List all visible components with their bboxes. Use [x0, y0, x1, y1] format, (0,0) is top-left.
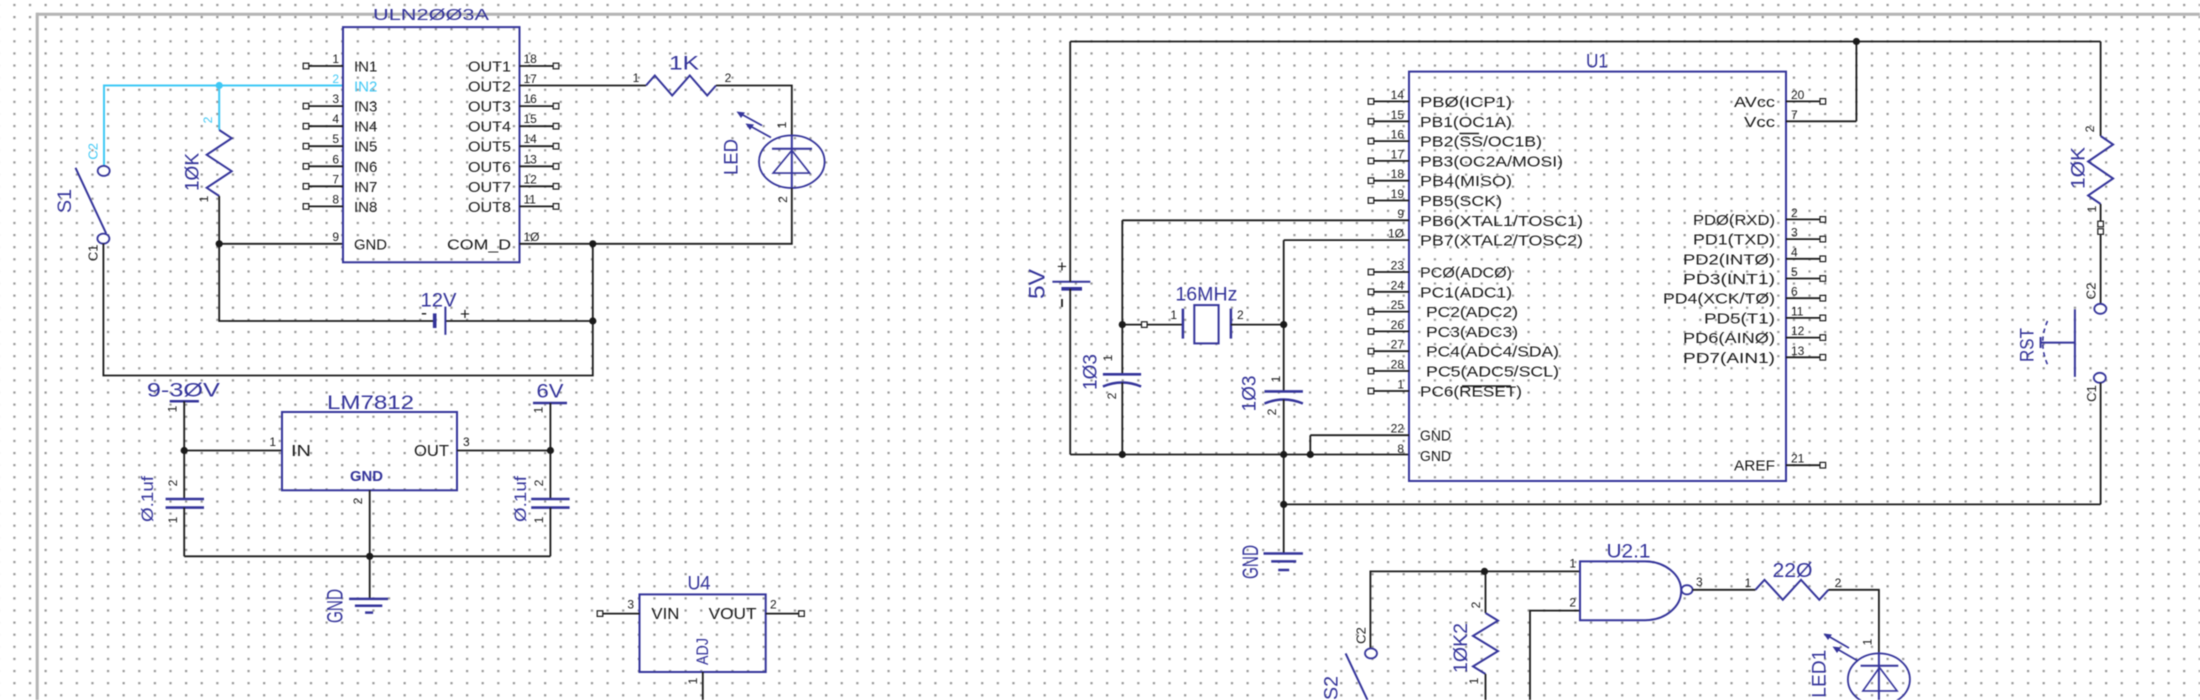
- ULN pin 9 GND: [332, 230, 387, 254]
- capacitor 103 (right): [1240, 325, 1303, 455]
- junction node 10K/GND9: [216, 240, 223, 247]
- switch RST pushbutton: [2018, 235, 2107, 505]
- svg-text:25: 25: [1391, 298, 1405, 312]
- svg-text:PDØ(RXD): PDØ(RXD): [1693, 212, 1775, 229]
- LED1 light arrows: [1838, 650, 1858, 662]
- svg-text:PC2(ADC2): PC2(ADC2): [1426, 304, 1518, 321]
- svg-text:1: 1: [1101, 354, 1115, 361]
- wire ground stem: [1283, 455, 1285, 505]
- svg-text:2: 2: [725, 71, 732, 85]
- U1 pin 2 PD0(RXD): [1693, 206, 1826, 229]
- ULN pin 7 IN7: [303, 172, 377, 196]
- svg-text:+: +: [460, 305, 470, 324]
- svg-text:GND: GND: [323, 589, 348, 623]
- svg-text:C2: C2: [85, 143, 100, 160]
- svg-text:PB7(XTAL2/TOSC2): PB7(XTAL2/TOSC2): [1420, 233, 1583, 250]
- resistor 1K: [633, 54, 732, 96]
- svg-text:2: 2: [1835, 576, 1842, 590]
- svg-text:1: 1: [1745, 576, 1752, 590]
- svg-text:8: 8: [1397, 442, 1404, 456]
- svg-text:C1: C1: [85, 244, 100, 261]
- svg-text:1Ø: 1Ø: [524, 230, 540, 244]
- svg-text:OUT8: OUT8: [468, 199, 511, 216]
- U1 pin 26 PC3(ADC3): [1368, 318, 1518, 341]
- ULN pin 3 IN3: [303, 92, 377, 116]
- junction node Vcc rail: [1853, 38, 1860, 45]
- ULN pin 5 IN5: [303, 132, 377, 156]
- svg-text:3: 3: [463, 435, 470, 449]
- svg-text:2: 2: [1265, 408, 1279, 415]
- switch S1: [55, 143, 110, 261]
- svg-text:15: 15: [524, 112, 538, 126]
- ULN pin 2 IN2: [332, 72, 377, 96]
- ULN pin 11 OUT8: [468, 192, 559, 216]
- capacitor 0.1uf (input): [138, 451, 204, 557]
- svg-text:1ØK: 1ØK: [2069, 147, 2090, 189]
- U1 pin 5 PD3(INT1): [1683, 265, 1826, 288]
- svg-text:1: 1: [332, 52, 339, 66]
- svg-text:1: 1: [686, 677, 700, 684]
- svg-text:1: 1: [1170, 308, 1177, 322]
- svg-text:LED1: LED1: [1809, 650, 1830, 698]
- svg-text:2: 2: [1237, 308, 1244, 322]
- supply 6V: [532, 382, 567, 414]
- svg-text:C1: C1: [2084, 385, 2099, 402]
- wire LED cathode down/left to COM_D: [520, 188, 792, 244]
- svg-text:1ØK: 1ØK: [183, 153, 204, 191]
- svg-text:1ØK2: 1ØK2: [1451, 623, 1472, 673]
- svg-text:23: 23: [1391, 259, 1405, 273]
- U4 pin 2 VOUT: [766, 613, 799, 615]
- IC U1 microcontroller: [1368, 52, 1825, 481]
- svg-text:AVcc: AVcc: [1734, 94, 1776, 111]
- U1 pin 1 PC6(RESET): [1368, 378, 1522, 401]
- resistor 10K (right): [2069, 42, 2113, 235]
- svg-text:PD3(INT1): PD3(INT1): [1683, 271, 1775, 288]
- U1 pin 25 PC2(ADC2): [1368, 298, 1518, 321]
- junction node VOUT: [547, 447, 554, 454]
- svg-text:3: 3: [1791, 226, 1798, 240]
- junction node VIN: [181, 447, 188, 454]
- svg-text:2: 2: [1791, 206, 1798, 220]
- svg-text:8: 8: [332, 192, 339, 206]
- svg-text:OUT4: OUT4: [468, 119, 511, 136]
- svg-text:14: 14: [1391, 88, 1405, 102]
- svg-text:Vcc: Vcc: [1744, 114, 1776, 131]
- svg-text:26: 26: [1391, 318, 1405, 332]
- svg-text:OUT5: OUT5: [468, 139, 511, 156]
- svg-text:2: 2: [1105, 392, 1119, 399]
- svg-text:PC3(ADC3): PC3(ADC3): [1426, 324, 1518, 341]
- svg-text:5: 5: [332, 132, 339, 146]
- RST terminal C1: [2094, 373, 2106, 383]
- svg-text:PC1(ADC1): PC1(ADC1): [1420, 284, 1512, 301]
- svg-text:16MHz: 16MHz: [1175, 285, 1237, 306]
- battery 12V: [421, 291, 471, 335]
- svg-text:27: 27: [1391, 338, 1405, 352]
- svg-text:1: 1: [166, 405, 180, 412]
- svg-text:Ø.1uf: Ø.1uf: [511, 476, 530, 522]
- wire net IN2 (highlighted): [104, 86, 343, 166]
- svg-text:PB5(SCK): PB5(SCK): [1420, 193, 1502, 210]
- svg-text:18: 18: [1391, 167, 1405, 181]
- svg-text:PB4(MISO): PB4(MISO): [1420, 173, 1512, 190]
- svg-text:1Ø3: 1Ø3: [1240, 376, 1261, 412]
- wire battery loop to S1 C1: [103, 244, 592, 376]
- U1 pin 6 PD4(XCK/T0): [1663, 285, 1826, 308]
- svg-text:1: 1: [1861, 638, 1875, 645]
- svg-text:PD5(T1): PD5(T1): [1704, 310, 1775, 327]
- ULN pin 17 OUT2: [468, 72, 537, 96]
- wire OUT2 to resistor 1K: [520, 85, 647, 87]
- svg-text:5: 5: [1791, 265, 1798, 279]
- U1 pin 19 PB5(SCK): [1368, 187, 1502, 210]
- svg-text:S2: S2: [1322, 676, 1343, 700]
- svg-text:22Ø: 22Ø: [1773, 560, 1813, 582]
- svg-text:C2: C2: [2083, 283, 2098, 300]
- ULN pin 16 OUT3: [468, 92, 559, 116]
- svg-text:2: 2: [1469, 601, 1483, 608]
- wire gate input 2: [1530, 611, 1580, 700]
- ULN pin 8 IN8: [303, 192, 377, 216]
- svg-text:PB1(OC1A): PB1(OC1A): [1420, 114, 1512, 131]
- svg-text:1: 1: [2085, 205, 2099, 212]
- ULN pin 12 OUT7: [468, 172, 559, 196]
- S2 terminal C2: [1365, 648, 1377, 658]
- wire XTAL1 pin9: [1122, 220, 1409, 324]
- svg-text:PD4(XCK/TØ): PD4(XCK/TØ): [1663, 291, 1775, 308]
- svg-text:OUT6: OUT6: [468, 159, 511, 176]
- svg-text:22: 22: [1391, 422, 1405, 436]
- U1 pin 9 PB6(XTAL1/TOSC1): [1397, 207, 1583, 230]
- ground GND (LM7812): [323, 589, 388, 623]
- wire to ground symbol: [1283, 504, 1285, 553]
- wire 220 to LED1: [1828, 590, 1879, 652]
- svg-text:IN: IN: [291, 443, 311, 460]
- junction node bus/cap right: [1280, 451, 1287, 458]
- wire 5V+ rail top: [1070, 42, 2100, 282]
- svg-text:1: 1: [166, 516, 180, 523]
- ULN pin 1 IN1: [303, 52, 377, 76]
- svg-text:1: 1: [1269, 375, 1283, 382]
- LED light arrows: [751, 127, 771, 138]
- svg-text:6: 6: [1791, 285, 1798, 299]
- svg-text:OUT1: OUT1: [468, 59, 511, 76]
- svg-text:14: 14: [524, 132, 538, 146]
- U1 pin 15 PB1(OC1A): [1368, 108, 1512, 131]
- ULN pin 18 OUT1: [468, 52, 559, 76]
- U1 pin 20 AVcc: [1734, 88, 1826, 111]
- ULN pin 14 OUT5: [468, 132, 559, 156]
- wire GND pin22 step: [1310, 435, 1409, 454]
- svg-text:1: 1: [1569, 557, 1576, 571]
- svg-text:4: 4: [332, 112, 339, 126]
- svg-text:1: 1: [532, 516, 546, 523]
- battery 5V: [1025, 257, 1091, 307]
- wire ground bus LM7812: [184, 490, 550, 599]
- svg-text:PC5(ADC5/SCL): PC5(ADC5/SCL): [1426, 364, 1559, 381]
- svg-text:GND: GND: [1238, 545, 1263, 579]
- svg-text:PC4(ADC4/SDA): PC4(ADC4/SDA): [1426, 344, 1559, 361]
- svg-text:GND: GND: [1420, 428, 1451, 445]
- svg-text:OUT2: OUT2: [468, 79, 511, 96]
- wire COM_D node down to battery +: [592, 244, 594, 321]
- svg-text:12V: 12V: [421, 291, 457, 312]
- svg-text:PD6(AINØ): PD6(AINØ): [1683, 330, 1775, 347]
- svg-text:2: 2: [2083, 125, 2097, 132]
- U1 pin 8 GND: [1397, 442, 1451, 465]
- svg-text:12: 12: [524, 172, 538, 186]
- svg-text:IN1: IN1: [354, 59, 377, 76]
- svg-text:1: 1: [1397, 378, 1404, 392]
- svg-text:IN8: IN8: [354, 199, 377, 216]
- svg-text:AREF: AREF: [1734, 458, 1775, 475]
- svg-text:17: 17: [1391, 147, 1405, 161]
- svg-text:11: 11: [1791, 304, 1804, 318]
- wire 9-30V to IN: [184, 401, 282, 450]
- U1 pin 3 PD1(TXD): [1693, 226, 1826, 249]
- svg-text:6V: 6V: [537, 382, 564, 403]
- svg-text:IN6: IN6: [354, 159, 377, 176]
- RST terminal C2: [2094, 304, 2106, 314]
- junction node bus/cap left: [1119, 451, 1126, 458]
- S1 terminal C2: [98, 166, 110, 176]
- svg-text:16: 16: [1391, 128, 1405, 142]
- svg-text:U1: U1: [1586, 52, 1608, 73]
- svg-text:RST: RST: [2018, 328, 2039, 362]
- svg-text:GND: GND: [350, 469, 383, 485]
- svg-text:9-3ØV: 9-3ØV: [147, 381, 220, 402]
- svg-text:2: 2: [770, 598, 777, 612]
- U1 pin 11 PD5(T1): [1704, 304, 1826, 327]
- svg-text:ADJ: ADJ: [693, 638, 712, 665]
- S2 blade: [1346, 653, 1368, 700]
- IC LM7812: [269, 393, 470, 504]
- svg-text:13: 13: [1791, 344, 1805, 358]
- svg-text:S1: S1: [55, 189, 76, 213]
- svg-text:15: 15: [1391, 108, 1405, 122]
- svg-text:OUT7: OUT7: [468, 179, 511, 196]
- ground GND (U1): [1238, 545, 1303, 579]
- ULN pin 4 IN4: [303, 112, 377, 136]
- svg-text:LED: LED: [722, 139, 743, 175]
- wire GND9 node down to battery -: [219, 244, 593, 321]
- IC U4 regulator: [597, 574, 804, 700]
- ULN pin 13 OUT6: [468, 152, 559, 176]
- junction node gate in1/10K2: [1481, 568, 1488, 575]
- wire S2 to gate input 1: [1370, 571, 1580, 648]
- gate U2.1 NAND: [1569, 542, 1703, 621]
- svg-text:2: 2: [532, 479, 546, 486]
- diode LED: [722, 112, 825, 203]
- svg-text:GND: GND: [354, 236, 387, 253]
- U1 pin 16 PB2(SS/OC1B): [1368, 128, 1542, 151]
- U1 pin 13 PD7(AIN1): [1683, 344, 1826, 367]
- svg-text:PB6(XTAL1/TOSC1): PB6(XTAL1/TOSC1): [1420, 213, 1583, 230]
- svg-text:17: 17: [524, 72, 538, 86]
- wire gate out to 220: [1693, 589, 1756, 591]
- RST plunger: [2074, 309, 2076, 377]
- wire RST return rail: [1284, 503, 2101, 505]
- svg-text:28: 28: [1391, 358, 1405, 372]
- U1 pin 27 PC4(ADC4/SDA): [1368, 338, 1559, 361]
- U1 pin 1 RESET overline: [1462, 385, 1511, 387]
- svg-text:3: 3: [332, 92, 339, 106]
- wire 6V to VOUT node: [549, 403, 551, 451]
- IC ULN2003A: [303, 7, 559, 262]
- svg-text:OUT: OUT: [414, 443, 449, 460]
- wire Vcc pin7 to 5V rail: [1786, 42, 1856, 122]
- svg-text:7: 7: [332, 172, 339, 186]
- svg-text:5V: 5V: [1025, 269, 1050, 299]
- svg-text:IN4: IN4: [354, 119, 377, 136]
- svg-text:GND: GND: [1420, 448, 1451, 465]
- ULN pin 15 OUT4: [468, 112, 559, 136]
- resistor 10K (left): [183, 116, 232, 202]
- wire OUT to 6V: [457, 450, 550, 452]
- svg-text:VOUT: VOUT: [709, 606, 757, 623]
- resistor 220: [1745, 560, 1842, 600]
- U1 pin 23 PC0(ADC0): [1368, 259, 1512, 282]
- junction node ground/RST return: [1280, 501, 1287, 508]
- svg-text:PCØ(ADCØ): PCØ(ADCØ): [1420, 265, 1512, 282]
- junction node LM7812 GND: [366, 553, 373, 560]
- svg-text:IN3: IN3: [354, 99, 377, 116]
- switch S2: [1322, 627, 1377, 700]
- svg-text:2: 2: [351, 497, 365, 504]
- svg-text:9: 9: [1397, 207, 1404, 221]
- crystal 16MHz: [1122, 285, 1283, 344]
- U1 pin 16 SS overline: [1460, 133, 1480, 135]
- svg-text:2: 2: [166, 479, 180, 486]
- svg-text:Ø.1uf: Ø.1uf: [138, 476, 157, 522]
- svg-text:1K: 1K: [669, 54, 699, 75]
- svg-text:+: +: [1057, 257, 1067, 276]
- ULN pin 6 IN6: [303, 152, 377, 176]
- U1 pin 17 PB3(OC2A/MOSI): [1368, 147, 1563, 170]
- junction node bus/pin22: [1307, 451, 1314, 458]
- svg-text:PD2(INTØ): PD2(INTØ): [1683, 251, 1775, 268]
- svg-text:PD1(TXD): PD1(TXD): [1693, 232, 1775, 249]
- svg-text:7: 7: [1791, 108, 1798, 122]
- svg-text:PBØ(ICP1): PBØ(ICP1): [1420, 94, 1512, 111]
- svg-text:1: 1: [269, 435, 276, 449]
- svg-text:COM_D: COM_D: [447, 236, 511, 253]
- svg-text:U4: U4: [688, 574, 711, 595]
- U1 pin 12 PD6(AIN0): [1683, 324, 1826, 347]
- svg-text:IN7: IN7: [354, 179, 377, 196]
- wire 5V- to ground bus: [1070, 289, 1409, 455]
- svg-text:PB3(OC2A/MOSI): PB3(OC2A/MOSI): [1420, 153, 1563, 170]
- U1 pin 4 PD2(INT0): [1683, 245, 1826, 268]
- U1 pin 24 PC1(ADC1): [1368, 278, 1512, 301]
- wire 1K to LED: [716, 86, 792, 137]
- svg-text:LM7812: LM7812: [327, 393, 414, 414]
- svg-text:1Ø: 1Ø: [1388, 227, 1404, 241]
- U1 pin 28 PC5(ADC5/SCL): [1368, 358, 1559, 381]
- svg-text:24: 24: [1391, 278, 1405, 292]
- diode LED1: [1809, 634, 1909, 700]
- svg-text:1Ø3: 1Ø3: [1081, 354, 1102, 390]
- svg-text:3: 3: [1696, 575, 1703, 589]
- wire 10K bottom to GND pin 9 of U-ULN: [219, 196, 343, 244]
- S1 terminal C1: [97, 234, 109, 244]
- svg-text:2: 2: [332, 72, 339, 86]
- svg-text:1: 1: [775, 121, 789, 128]
- svg-text:9: 9: [332, 230, 339, 244]
- svg-text:19: 19: [1391, 187, 1405, 201]
- svg-text:2: 2: [201, 116, 215, 123]
- wire XTAL2 pin10: [1284, 240, 1409, 325]
- svg-text:IN5: IN5: [354, 139, 377, 156]
- svg-text:1: 1: [1467, 677, 1481, 684]
- U1 pin 14 PB0(ICP1): [1368, 88, 1512, 111]
- svg-text:1: 1: [197, 195, 211, 202]
- junction node crystal right: [1280, 321, 1287, 328]
- S1 blade: [76, 168, 107, 234]
- svg-text:12: 12: [1791, 324, 1805, 338]
- U1 pin 7 Vcc: [1744, 108, 1798, 131]
- svg-text:C2: C2: [1354, 627, 1369, 644]
- U1 pin 10 PB7(XTAL2/TOSC2): [1388, 227, 1583, 250]
- junction node IN2/10K: [216, 82, 223, 89]
- svg-text:2: 2: [1569, 596, 1576, 610]
- svg-text:PB2(SS/OC1B): PB2(SS/OC1B): [1420, 134, 1542, 151]
- svg-text:1: 1: [633, 71, 640, 85]
- capacitor 103 (left): [1081, 325, 1141, 455]
- svg-text:2: 2: [776, 196, 790, 203]
- svg-text:11: 11: [524, 192, 537, 206]
- svg-text:ULN2ØØ3A: ULN2ØØ3A: [373, 7, 490, 24]
- svg-text:U2.1: U2.1: [1607, 542, 1651, 563]
- resistor 10K2: [1451, 571, 1498, 700]
- svg-text:21: 21: [1791, 452, 1805, 466]
- U1 pin 18 PB4(MISO): [1368, 167, 1512, 190]
- U4 pin 3 VIN: [603, 613, 640, 615]
- svg-text:20: 20: [1791, 88, 1805, 102]
- svg-text:13: 13: [524, 152, 538, 166]
- svg-text:18: 18: [524, 52, 538, 66]
- junction node battery+: [589, 317, 596, 324]
- svg-text:VIN: VIN: [651, 606, 679, 623]
- junction node crystal left: [1119, 321, 1126, 328]
- svg-text:PD7(AIN1): PD7(AIN1): [1683, 350, 1775, 367]
- ULN pin 10 COM_D: [447, 230, 540, 254]
- svg-text:IN2: IN2: [354, 79, 377, 96]
- svg-text:4: 4: [1791, 245, 1798, 259]
- svg-text:6: 6: [332, 152, 339, 166]
- svg-text:OUT3: OUT3: [468, 99, 511, 116]
- svg-text:1: 1: [532, 406, 546, 413]
- U1 pin 22 GND: [1391, 422, 1452, 445]
- supply 9-30V: [147, 381, 220, 413]
- svg-text:3: 3: [627, 598, 634, 612]
- junction node COM_D/LED: [589, 240, 596, 247]
- unconnected pads 10K/RST: [2098, 221, 2104, 227]
- svg-text:16: 16: [524, 92, 538, 106]
- U1 pin 21 AREF: [1734, 452, 1826, 475]
- capacitor 0.1uf (output): [511, 451, 570, 557]
